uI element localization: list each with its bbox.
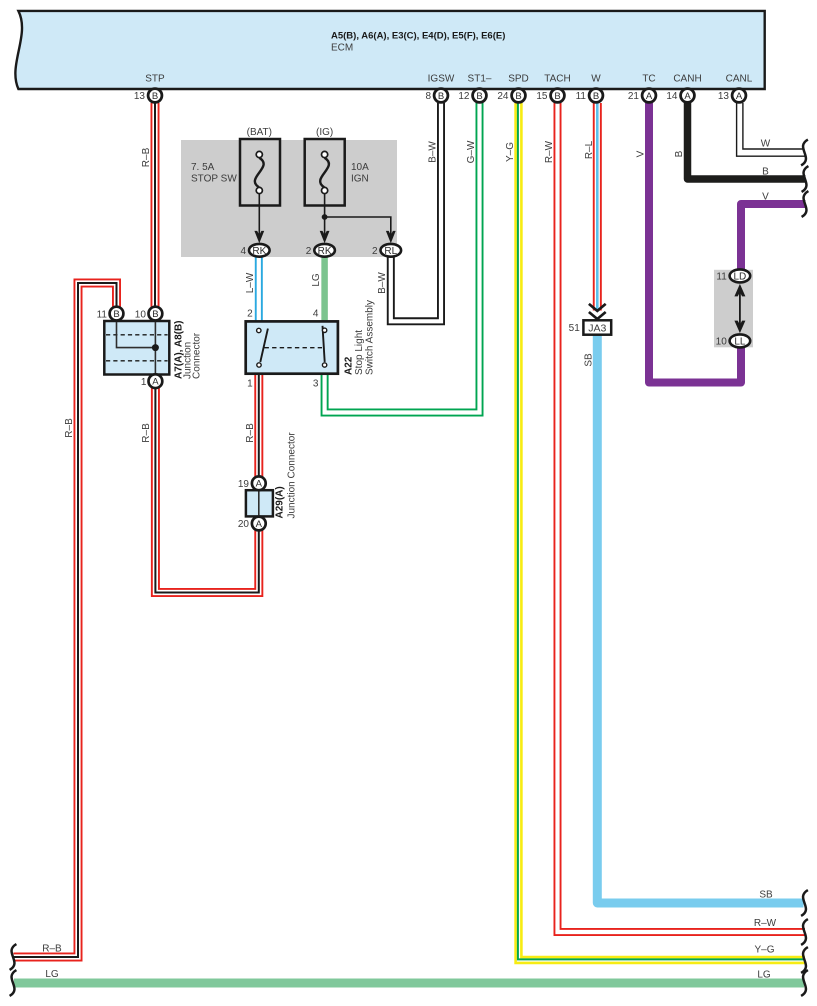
svg-text:51: 51 (569, 323, 581, 334)
svg-text:STOP SW: STOP SW (191, 174, 237, 185)
pin 11(B) (97, 307, 124, 321)
svg-text:W: W (761, 139, 771, 150)
svg-text:V: V (762, 191, 769, 202)
svg-text:B: B (152, 309, 158, 320)
svg-text:B: B (515, 91, 521, 102)
wire SB from JA3 down then right to page edge (597, 335, 803, 904)
svg-text:SPD: SPD (508, 74, 529, 85)
svg-text:(BAT): (BAT) (247, 127, 272, 138)
svg-text:JA3: JA3 (588, 322, 606, 334)
svg-text:LG: LG (45, 969, 59, 980)
svg-text:B: B (762, 167, 769, 178)
wire L-W from fuse 4 RK to A22 pin 2 (255, 257, 263, 322)
svg-text:LL: LL (734, 337, 746, 348)
svg-text:SB: SB (759, 890, 773, 901)
svg-text:TACH: TACH (544, 74, 570, 85)
pin 19(A) (238, 476, 266, 490)
svg-text:ECM: ECM (331, 43, 353, 54)
pin 10(B) (135, 307, 163, 321)
svg-text:R–B: R–B (64, 418, 75, 438)
svg-text:G–W: G–W (466, 140, 477, 163)
svg-text:20: 20 (238, 519, 250, 530)
svg-text:LG: LG (757, 970, 771, 981)
pin 1(A) (141, 374, 162, 388)
svg-text:STP: STP (145, 74, 165, 85)
wire B-W from IGSW pin 8 down, left, up to fuse pin 2 RL (391, 103, 441, 321)
label A29(A) Junction Connector (275, 432, 298, 519)
junction dot and branch to RL (322, 214, 391, 236)
svg-text:B: B (438, 91, 444, 102)
svg-text:1: 1 (141, 377, 147, 388)
svg-text:15: 15 (536, 91, 548, 102)
svg-text:13: 13 (134, 91, 146, 102)
svg-text:IGN: IGN (351, 174, 369, 185)
svg-text:Connector: Connector (192, 332, 203, 379)
svg-text:R–W: R–W (544, 140, 555, 163)
svg-text:7. 5A: 7. 5A (191, 162, 215, 173)
svg-text:A: A (256, 519, 263, 530)
svg-text:12: 12 (458, 91, 470, 102)
svg-text:A: A (646, 91, 653, 102)
svg-text:R–B: R–B (141, 423, 152, 443)
svg-text:10: 10 (135, 309, 147, 320)
page edge break W (right) (801, 140, 808, 166)
wire R-W from TACH pin 15 down to bottom, right to page edge (558, 103, 806, 932)
svg-text:Switch Assembly: Switch Assembly (365, 300, 376, 375)
wire W (hollow) from CANL pin 13 down then right to page edge (737, 103, 805, 156)
svg-text:B–W: B–W (428, 141, 439, 163)
svg-text:B–W: B–W (377, 272, 388, 294)
label A7(A), A8(B) Junction Connector (174, 320, 203, 379)
svg-text:RK: RK (318, 246, 332, 257)
page edge break B (right) (802, 166, 809, 192)
svg-text:R–B: R–B (42, 944, 62, 955)
JA3 junction arrow (589, 304, 606, 319)
wire LG bottom full width (14, 979, 804, 988)
svg-text:11: 11 (576, 91, 587, 102)
wire LG from fuse 2 RK to A22 pin 4 (321, 257, 328, 322)
pin 11(B) W (576, 89, 603, 103)
page edge break R-B (left) (10, 944, 17, 970)
pin 4(RK) (240, 244, 269, 257)
svg-text:IGSW: IGSW (428, 74, 455, 85)
page edge break LG (left) (10, 970, 17, 996)
junction connector A7(A), A8(B) (104, 321, 169, 375)
page edge break LG (right) (801, 970, 808, 996)
svg-text:Junction Connector: Junction Connector (287, 432, 298, 519)
pin 12(B) ST1- (458, 89, 486, 103)
arrow into 4(RK) (254, 231, 264, 243)
svg-text:A: A (736, 91, 743, 102)
wire R-B from STP pin 13 to junction pin 10 (151, 103, 160, 307)
svg-text:B: B (113, 309, 119, 320)
svg-text:R–L: R–L (584, 140, 595, 159)
svg-text:R–W: R–W (754, 918, 777, 929)
svg-text:2: 2 (372, 246, 378, 257)
svg-text:2: 2 (306, 246, 312, 257)
svg-text:Stop Light: Stop Light (354, 330, 365, 375)
svg-text:B: B (476, 91, 482, 102)
value label 10A IGN fuse (351, 162, 369, 185)
gray relay/fuse block background (181, 140, 397, 257)
gray connector block LD/LL background (714, 270, 753, 348)
svg-text:(IG): (IG) (316, 127, 333, 138)
label A22 Stop Light Switch Assembly (344, 300, 376, 375)
pin 24(B) SPD (497, 89, 525, 103)
svg-text:Y–G: Y–G (505, 142, 516, 162)
svg-text:CANH: CANH (673, 74, 701, 85)
arrow into 2(RK) (320, 231, 330, 243)
wire B from CANH pin 14 down then right to page edge (688, 103, 806, 179)
svg-text:B: B (152, 91, 158, 102)
wire R-B from junction pin 11 left and down to bottom-left page edge (14, 283, 117, 957)
svg-text:TC: TC (642, 74, 655, 85)
page edge break SB (right) (801, 890, 808, 916)
svg-text:3: 3 (313, 379, 319, 390)
svg-text:8: 8 (425, 91, 431, 102)
svg-text:R–B: R–B (141, 147, 152, 167)
pin 13(A) CANL (718, 89, 746, 103)
svg-text:11: 11 (716, 272, 727, 283)
svg-text:A: A (684, 91, 691, 102)
page edge break V (right) (802, 191, 809, 217)
pin 2(RL) (372, 244, 401, 257)
ECM box (15, 11, 764, 89)
svg-text:B: B (593, 91, 599, 102)
svg-text:W: W (591, 74, 601, 85)
svg-text:1: 1 (247, 379, 253, 390)
svg-text:RL: RL (384, 246, 397, 257)
svg-text:LD: LD (734, 272, 747, 283)
svg-text:2: 2 (247, 309, 253, 320)
svg-text:A5(B), A6(A), E3(C), E4(D), E5: A5(B), A6(A), E3(C), E4(D), E5(F), E6(E) (331, 31, 505, 42)
svg-text:4: 4 (240, 246, 246, 257)
svg-text:SB: SB (584, 353, 595, 367)
svg-text:21: 21 (628, 91, 640, 102)
svg-text:B: B (554, 91, 560, 102)
svg-text:V: V (636, 150, 647, 157)
pin 21(A) TC (628, 89, 656, 103)
svg-text:11: 11 (97, 309, 108, 320)
svg-text:CANL: CANL (726, 74, 753, 85)
wire V from LD up then right to page edge (741, 204, 806, 271)
svg-text:10A: 10A (351, 162, 369, 173)
arrow into 2(RL) (386, 231, 396, 243)
fuse 7.5A STOP SW (240, 139, 280, 236)
svg-text:A: A (152, 377, 159, 388)
svg-text:A22: A22 (344, 356, 355, 375)
svg-text:24: 24 (497, 91, 509, 102)
junction connector A29(A) (246, 490, 273, 516)
wire R-B from A22 pin 1 to junction connector A29 pin 19 (254, 374, 263, 477)
page edge break R-W (right) (801, 919, 808, 945)
pin 13(B) STP (134, 89, 162, 103)
svg-text:ST1–: ST1– (468, 74, 492, 85)
pin 14(A) CANH (666, 89, 694, 103)
svg-text:L–W: L–W (245, 272, 256, 293)
fuse 10A IGN (305, 139, 345, 236)
wire G-W from ST1- pin 12 down, left, up to A22 pin 3 (325, 103, 480, 413)
pin 11(LD) (716, 269, 750, 282)
svg-text:4: 4 (313, 309, 319, 320)
svg-text:RK: RK (252, 246, 266, 257)
svg-text:B: B (674, 150, 685, 157)
pin 20(A) (238, 517, 266, 531)
svg-text:LG: LG (311, 273, 322, 287)
svg-text:A29(A): A29(A) (275, 486, 286, 518)
pin 8(B) IGSW (425, 89, 447, 103)
wire Y-G from SPD pin 24 down to bottom, right to page edge (518, 103, 805, 960)
pin 10(LL) (716, 334, 751, 347)
wire R-L from W pin 11 down to JA3 arrow (593, 103, 602, 311)
svg-text:13: 13 (718, 91, 730, 102)
svg-text:Y–G: Y–G (754, 945, 774, 956)
svg-text:19: 19 (238, 479, 250, 490)
pin 2(RK) (306, 244, 335, 257)
svg-text:A: A (256, 479, 263, 490)
wire R-B from A29 pin 20 down, left, up to junction pin 1 (155, 388, 258, 593)
svg-text:14: 14 (666, 91, 678, 102)
JA3 box, pin 51 (569, 320, 612, 334)
stop light switch A22 (246, 321, 338, 373)
wire V from TC pin 21 down, right, up to LL (649, 103, 741, 383)
pin 15(B) TACH (536, 89, 564, 103)
value label 7.5A STOP SW fuse (191, 162, 237, 185)
svg-text:10: 10 (716, 337, 728, 348)
connector LD/LL arrows (734, 284, 745, 333)
svg-text:R–B: R–B (245, 423, 256, 443)
page edge break Y-G (right) (801, 947, 808, 973)
